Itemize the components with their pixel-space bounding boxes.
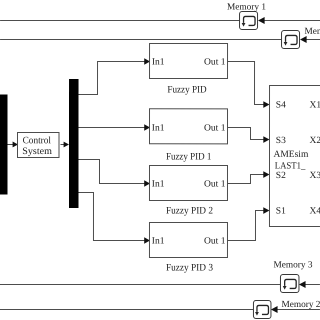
svg-text:S4: S4 — [276, 101, 286, 111]
arrowhead into Memory 2 — [271, 306, 278, 313]
arrowhead into AMEsim S1 — [263, 207, 269, 214]
wire — [79, 61, 145, 94]
block AMEsim LAST1_ — [269, 86, 320, 227]
arrowhead into Fuzzy PID In1 — [144, 58, 150, 64]
arrowhead into Memory 1 — [258, 17, 265, 24]
svg-text:Control: Control — [23, 135, 52, 146]
svg-text:Fuzzy PID: Fuzzy PID — [167, 85, 206, 96]
arrowhead into Fuzzy PID 1 In1 — [144, 124, 150, 130]
svg-text:S2: S2 — [276, 171, 286, 181]
arrowhead into Fuzzy PID 2 In1 — [144, 180, 150, 186]
wire — [227, 211, 263, 241]
wire — [79, 126, 145, 128]
wire — [61, 143, 64, 145]
memory block Memory 4 (cropped at right) — [282, 31, 300, 49]
svg-text:X2: X2 — [310, 136, 320, 146]
svg-text:Fuzzy PID 3: Fuzzy PID 3 — [166, 263, 213, 274]
wire — [227, 175, 263, 184]
svg-text:LAST1_: LAST1_ — [275, 161, 306, 171]
svg-text:In1: In1 — [152, 123, 165, 133]
wire — [228, 128, 264, 140]
wire — [265, 20, 320, 22]
svg-text:In1: In1 — [152, 236, 165, 246]
svg-text:Out 1: Out 1 — [204, 237, 226, 247]
svg-text:AMEsim: AMEsim — [274, 150, 309, 160]
mux bar 1 — [0, 94, 8, 194]
arrowhead into AMEsim S4 — [263, 101, 269, 108]
svg-text:X4: X4 — [309, 207, 320, 217]
arrowhead into AMEsim S2 — [263, 171, 269, 178]
wire — [78, 192, 144, 240]
block Fuzzy PID 1 — [150, 109, 228, 144]
mux bar 2 — [69, 79, 79, 208]
svg-text:System: System — [22, 146, 52, 157]
arrowhead into Memory 4 — [300, 36, 307, 43]
arrowhead into Fuzzy PID 3 In1 — [144, 237, 150, 243]
wire — [228, 62, 264, 105]
svg-text:In1: In1 — [152, 179, 165, 189]
block Fuzzy PID 2 — [149, 165, 227, 200]
wire — [305, 284, 320, 286]
memory block Memory 1 — [240, 12, 258, 30]
svg-text:Memory 4: Memory 4 — [305, 27, 320, 37]
wire — [306, 39, 320, 41]
wire — [8, 143, 13, 145]
svg-text:Out 1: Out 1 — [204, 58, 226, 68]
svg-text:Memory 3: Memory 3 — [273, 260, 312, 270]
svg-text:S3: S3 — [276, 136, 286, 146]
arrowhead into Memory 3 — [299, 281, 306, 288]
wire — [78, 159, 144, 183]
svg-text:S1: S1 — [276, 207, 286, 217]
svg-text:Memory 2: Memory 2 — [281, 300, 320, 310]
arrowhead into AMEsim S3 — [263, 136, 269, 143]
arrowhead into mux bar 2 — [64, 142, 69, 148]
svg-text:Memory 1: Memory 1 — [227, 3, 266, 13]
block Fuzzy PID 3 — [149, 222, 227, 257]
svg-text:Fuzzy PID 1: Fuzzy PID 1 — [166, 152, 212, 163]
svg-text:Out 1: Out 1 — [204, 124, 226, 134]
wire — [0, 283, 281, 285]
svg-text:X3: X3 — [309, 171, 320, 181]
wire — [0, 38, 282, 40]
svg-text:Fuzzy PID 2: Fuzzy PID 2 — [166, 206, 213, 217]
arrowhead into Control System — [13, 142, 18, 148]
memory block Memory 3 — [280, 275, 299, 293]
block Control System — [18, 132, 60, 157]
block Fuzzy PID — [150, 43, 228, 78]
wire — [0, 308, 253, 310]
svg-text:X1: X1 — [310, 101, 320, 111]
svg-text:Out 1: Out 1 — [204, 180, 226, 190]
wire — [277, 309, 320, 311]
svg-text:In1: In1 — [152, 57, 165, 67]
memory block Memory 2 (cropped at bottom) — [253, 301, 271, 319]
wire — [0, 19, 240, 21]
